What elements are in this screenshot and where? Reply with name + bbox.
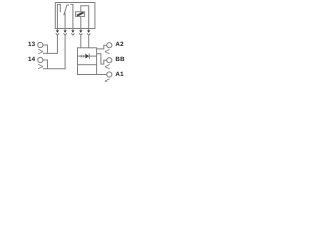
- terminal 13: [38, 42, 48, 53]
- pin 2 connector: [64, 29, 67, 36]
- contact fixed post, pin 3 wire: [70, 4, 73, 28]
- input circuit box with LED: [78, 48, 97, 65]
- contact fixed post, pin 1 wire: [57, 4, 60, 28]
- pin 1 connector: [56, 29, 59, 36]
- wire pin 2 down to terminal 14: [43, 35, 65, 69]
- contact lever, pin 2: [64, 5, 69, 29]
- terminal 14: [38, 57, 48, 68]
- pin 5 connector: [87, 29, 90, 36]
- label A1: [115, 72, 123, 78]
- wire coil top to pin 5: [81, 6, 89, 29]
- label 14: [28, 57, 35, 63]
- pin 3 connector: [71, 29, 74, 36]
- wire box to terminal BB: [97, 54, 107, 64]
- terminal A2: [105, 43, 112, 54]
- wire box to terminal A2: [97, 45, 107, 49]
- coil K1: [76, 12, 85, 17]
- terminal A1: [105, 72, 112, 83]
- wire pin 1 down to terminal 13: [43, 35, 57, 53]
- terminal BB: [105, 58, 112, 69]
- pin 4 connector: [79, 29, 82, 36]
- relay module box K1: [55, 3, 95, 29]
- label BB: [115, 57, 124, 63]
- label A2: [115, 42, 123, 48]
- wire pin 5 to input box: [88, 35, 90, 48]
- wire box bottom-right to A1 line: [96, 65, 98, 75]
- wire box bottom-left to A1 line: [78, 65, 107, 75]
- label 13: [28, 42, 35, 48]
- wire coil bottom to pin 4: [80, 16, 82, 28]
- wire pin 4 to input box: [80, 35, 82, 48]
